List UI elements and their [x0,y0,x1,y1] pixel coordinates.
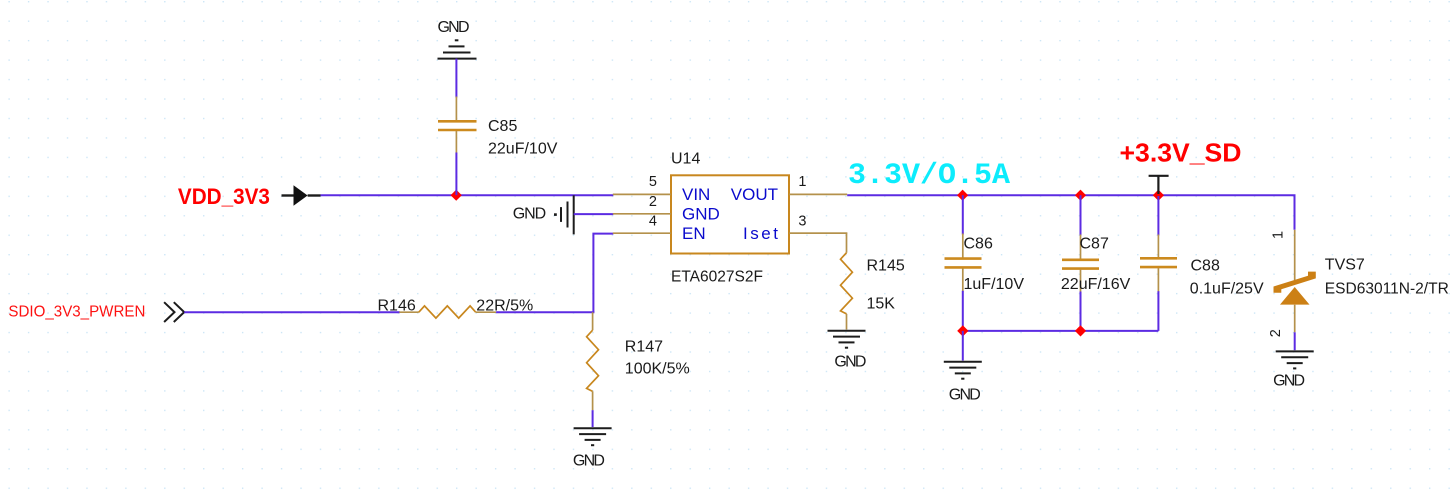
pin 1 stub [789,193,847,195]
pin 5 stub [613,193,671,195]
regulator U14 [613,151,847,286]
junction bus at C87 [1075,325,1086,336]
svg-text:C85: C85 [488,118,517,135]
svg-text:C88: C88 [1191,257,1220,274]
junction at C86 [957,190,968,201]
svg-text:VOUT: VOUT [731,185,778,204]
ground below R145 [828,331,867,371]
capacitor C86 [945,195,1025,331]
svg-text:GND: GND [573,453,605,470]
resistor R146 [378,297,534,318]
svg-text:ETA6027S2F: ETA6027S2F [671,268,763,285]
ground below C86 [944,362,982,404]
resistor R147 [587,312,690,410]
TVS diode TVS7 [1268,230,1449,337]
svg-text:R147: R147 [625,338,663,355]
ground below R147 [573,428,612,469]
capacitor C88 [1140,196,1264,331]
svg-text:VDD_3V3: VDD_3V3 [178,184,270,209]
junction at power tap [1153,190,1164,201]
anode triangle [1280,287,1310,305]
svg-text:15K: 15K [867,295,896,312]
svg-text:+3.3V_SD: +3.3V_SD [1120,138,1242,168]
svg-text:5: 5 [649,174,657,190]
svg-text:22uF/16V: 22uF/16V [1061,276,1131,293]
wire gnd bars to pin 2 [574,213,614,215]
svg-text:2: 2 [1268,329,1284,337]
svg-text:22uF/10V: 22uF/10V [488,140,558,157]
junction at C85 tap [451,190,462,201]
wire VOUT rail [847,195,1294,230]
wire R146 to EN junction [496,311,594,313]
port SDIO_3V3_PWREN [8,302,184,322]
wire EN riser [593,234,613,313]
svg-text:C86: C86 [964,236,993,253]
wire SDIO to R146 [184,311,400,313]
svg-text:3.3V/O.5A: 3.3V/O.5A [848,159,1010,193]
svg-text:GND: GND [1273,372,1305,389]
svg-text:R145: R145 [867,257,905,274]
svg-text:2: 2 [649,194,657,210]
svg-text:GND: GND [834,354,866,371]
svg-text:100K/5%: 100K/5% [625,360,690,377]
cathode bar [1274,272,1316,293]
svg-text:1: 1 [798,174,806,190]
junction at C87 [1075,190,1086,201]
pin 2 lead [1294,305,1296,333]
svg-text:GND: GND [682,204,720,223]
svg-text:GND: GND [949,387,981,404]
wire TVS to ground [1294,332,1296,350]
svg-text:C87: C87 [1080,236,1109,253]
pin 1 lead [1294,230,1296,281]
wire C86 to ground [962,331,964,361]
pin 2 stub [613,213,671,215]
svg-text:3: 3 [798,213,806,229]
svg-text:U14: U14 [671,151,700,168]
svg-text:1: 1 [1271,231,1287,239]
svg-text:GND: GND [513,205,547,222]
svg-text:VIN: VIN [682,185,710,204]
svg-text:0.1uF/25V: 0.1uF/25V [1190,280,1264,297]
wire VDD_3V3 rail to pin 5 [321,194,614,196]
capacitor C87 [1061,195,1131,331]
svg-text:1uF/10V: 1uF/10V [964,276,1025,293]
port VDD_3V3 [178,184,321,209]
ground at pin 2 (rotated) [513,195,574,234]
pin 3 stub [789,232,847,234]
wire C85 upper [455,59,457,98]
pin 4 stub [613,232,671,234]
svg-text:ESD63011N-2/TR: ESD63011N-2/TR [1325,281,1449,298]
wire R147 to ground [592,410,594,427]
svg-text:4: 4 [649,213,657,229]
wire ground bus [963,330,1159,332]
capacitor C85 [438,97,558,158]
ground below TVS7 [1273,351,1314,389]
power symbol +3.3V_SD [1120,138,1242,195]
svg-text:GND: GND [438,19,470,36]
svg-text:EN: EN [682,224,706,243]
resistor R145 [789,233,905,329]
junction bus at C86 [957,325,968,336]
wire C85 lower [455,153,457,196]
svg-text:SDIO_3V3_PWREN: SDIO_3V3_PWREN [8,304,145,321]
svg-text:TVS7: TVS7 [1325,257,1365,274]
ground above C85 [438,19,477,58]
